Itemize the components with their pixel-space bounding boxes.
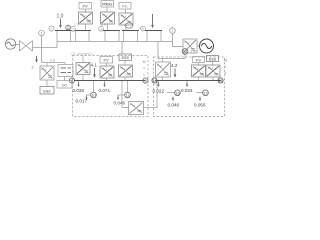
node 18 edge label: [224, 59, 227, 76]
dashed subgrid box 2: [154, 57, 225, 117]
drop to box2: [157, 42, 159, 59]
PV box F: [193, 57, 205, 63]
ESS box G: [207, 56, 219, 62]
wire to R1 top: [64, 63, 66, 65]
load arrow 0.034: [186, 82, 188, 87]
wire riser left: [56, 42, 58, 48]
wire convA-bus3: [85, 24, 87, 31]
load arrow 1.0: [60, 19, 62, 28]
svg-text:10: 10: [92, 94, 96, 98]
svg-text:ESS: ESS: [43, 89, 51, 93]
node 17 link: [196, 92, 203, 94]
node 6: [141, 26, 146, 31]
bus 3: [74, 30, 91, 32]
wire boxE-C3: [124, 61, 126, 66]
wire node13 to box2 line: [184, 54, 186, 58]
svg-text:0.8: 0.8: [50, 59, 55, 63]
wire boxA-convA: [85, 9, 87, 12]
converter C3: [119, 65, 133, 77]
wire convB-bus4: [107, 24, 109, 31]
node 16: [175, 90, 181, 96]
wire boxB-convB: [106, 7, 108, 12]
wire to conv G2: [173, 46, 184, 48]
svg-text:4.1: 4.1: [91, 63, 98, 68]
bus 4: [103, 30, 120, 32]
converter G2: [183, 39, 197, 53]
svg-text:11: 11: [126, 94, 130, 98]
AC grid source G2: [200, 39, 214, 53]
svg-text:0.034: 0.034: [181, 88, 193, 93]
converter C: [119, 13, 133, 25]
battery box R1: [58, 65, 73, 77]
svg-text:1: 1: [143, 73, 145, 77]
PV box C: [119, 3, 131, 10]
svg-text:PV: PV: [196, 57, 202, 62]
node 2b right: [66, 25, 71, 30]
interlink wire to box2: [144, 107, 158, 109]
svg-text:PV: PV: [83, 4, 89, 9]
wire node7 riser: [172, 33, 174, 46]
PV box D: [100, 57, 113, 64]
load arrow 4.2: [174, 69, 176, 78]
node 1: [39, 30, 45, 36]
PMSG box B: [101, 1, 114, 8]
wire C5 top: [162, 59, 164, 63]
wire C5-bus2: [162, 77, 164, 81]
wire C6-bus2: [198, 77, 200, 81]
svg-text:2: 2: [67, 26, 69, 30]
svg-text:PMSG: PMSG: [102, 3, 112, 7]
svg-text:4.2: 4.2: [171, 63, 178, 68]
wire boxD-C2: [106, 63, 108, 66]
svg-text:ESS: ESS: [122, 56, 130, 60]
node 17: [203, 90, 209, 96]
wire boxF-C6: [198, 63, 200, 66]
converter C5: [156, 62, 171, 77]
load arrow 0.022: [158, 82, 160, 87]
svg-text:2: 2: [51, 27, 53, 31]
node 13: [182, 49, 188, 55]
node 2: [49, 26, 54, 31]
bus 6: [145, 30, 162, 32]
AC grid source G1: [5, 39, 15, 49]
converter C6: [192, 65, 206, 77]
svg-text:9: 9: [145, 79, 147, 83]
svg-text:PV: PV: [104, 58, 110, 63]
svg-text:0.036: 0.036: [73, 88, 85, 93]
svg-text:0.017: 0.017: [76, 98, 88, 103]
node10 left stub: [87, 94, 91, 96]
load arrow 0.017: [86, 95, 88, 100]
wire bowtie to riser: [33, 47, 57, 49]
cluster load arrow: [36, 56, 38, 62]
svg-text:4: 4: [143, 67, 145, 71]
wire conv-G2 circle: [197, 45, 200, 47]
load arrow bus6: [152, 14, 154, 28]
wire bus1 to C4: [122, 81, 129, 108]
bus 5: [122, 30, 139, 32]
wire C8-B1: [46, 80, 48, 87]
node 9: [143, 78, 148, 83]
node 8: [69, 78, 74, 83]
svg-text:0.056: 0.056: [194, 103, 206, 108]
node 7: [170, 28, 176, 34]
wire to C8: [46, 63, 48, 67]
node 11: [125, 92, 131, 98]
svg-text:7: 7: [172, 29, 174, 33]
svg-text:1.0: 1.0: [57, 14, 64, 20]
svg-text:6: 6: [142, 27, 144, 31]
feeder wire: [57, 41, 173, 43]
svg-text:15: 15: [219, 79, 223, 83]
node 5 ellipse: [125, 23, 133, 28]
svg-text:M: M: [143, 60, 146, 64]
bus5 drops: [123, 31, 125, 42]
svg-text:0.046: 0.046: [114, 101, 126, 106]
dc bus 1: [74, 80, 146, 82]
wire C7-bus2: [212, 77, 214, 81]
wire C2-bus: [106, 78, 108, 81]
svg-text:0.046: 0.046: [168, 103, 180, 108]
node 16 link: [167, 92, 175, 94]
svg-text:2: 2: [32, 66, 34, 70]
svg-text:1.2: 1.2: [74, 23, 79, 27]
bus 2: [55, 30, 72, 32]
transformer T1 bowtie: [16, 41, 33, 52]
svg-text:ESS: ESS: [209, 57, 217, 61]
box2 entry line: [158, 58, 185, 60]
svg-text:4: 4: [100, 27, 102, 31]
wire C1 top: [82, 56, 84, 63]
svg-text:DC: DC: [62, 83, 68, 87]
wire R1-R2: [64, 77, 66, 81]
converter C7: [206, 65, 220, 77]
load arrow 0.056: [199, 97, 201, 101]
svg-text:7: 7: [225, 65, 227, 69]
converter B: [101, 12, 115, 24]
box1 edge stacked label: [143, 60, 146, 77]
svg-text:17: 17: [204, 91, 208, 95]
svg-text:3: 3: [72, 27, 74, 31]
svg-text:16: 16: [176, 91, 180, 95]
node 10 stub: [93, 81, 95, 92]
wire C3-bus: [124, 77, 126, 81]
cluster wire horizontal: [42, 62, 66, 64]
bus6 drops: [146, 31, 148, 42]
bus3 drops: [75, 31, 77, 42]
dc bus 2: [156, 80, 222, 82]
converter C1: [76, 63, 90, 75]
converter A: [79, 12, 93, 24]
svg-text:1.3: 1.3: [191, 51, 196, 55]
load arrow 0.046: [117, 95, 119, 100]
node 10: [91, 92, 97, 98]
wire node1 vertical: [41, 36, 43, 63]
svg-text:FC: FC: [122, 4, 127, 9]
converter C2: [100, 66, 114, 78]
load arrow 0.036: [78, 82, 80, 87]
PV box A: [79, 3, 92, 10]
svg-text:4: 4: [225, 72, 227, 76]
node11 left stub: [118, 94, 125, 96]
node 14: [152, 78, 157, 83]
wire C1-bus: [82, 75, 84, 81]
node 11 stub: [127, 81, 129, 92]
svg-text:M: M: [224, 59, 227, 63]
drop to box1: [121, 42, 123, 55]
load arrow 4.1: [94, 68, 96, 77]
wire riser box2 bus: [156, 81, 158, 108]
wire boxG-C7: [212, 62, 214, 66]
svg-text:0.071: 0.071: [99, 88, 111, 93]
dashed subgrid box 1: [73, 56, 149, 117]
node 15: [218, 78, 223, 83]
svg-text:14: 14: [153, 79, 157, 83]
bus4 drops: [104, 31, 106, 42]
svg-text:13: 13: [183, 50, 187, 54]
box R2: [57, 81, 72, 89]
wire boxC-convC: [125, 9, 127, 13]
ESS box E: [119, 54, 132, 61]
wire convC-bus5: [125, 25, 127, 31]
interlink converter C4: [129, 102, 144, 115]
bus2 drops: [56, 31, 58, 42]
node 3: [71, 26, 76, 31]
ESS box B1: [40, 87, 54, 95]
load arrow 0.071: [104, 82, 106, 87]
node 4: [99, 26, 104, 31]
load arrow 0.046b: [172, 97, 174, 101]
svg-text:0.022: 0.022: [153, 89, 165, 94]
converter C8: [40, 66, 54, 80]
